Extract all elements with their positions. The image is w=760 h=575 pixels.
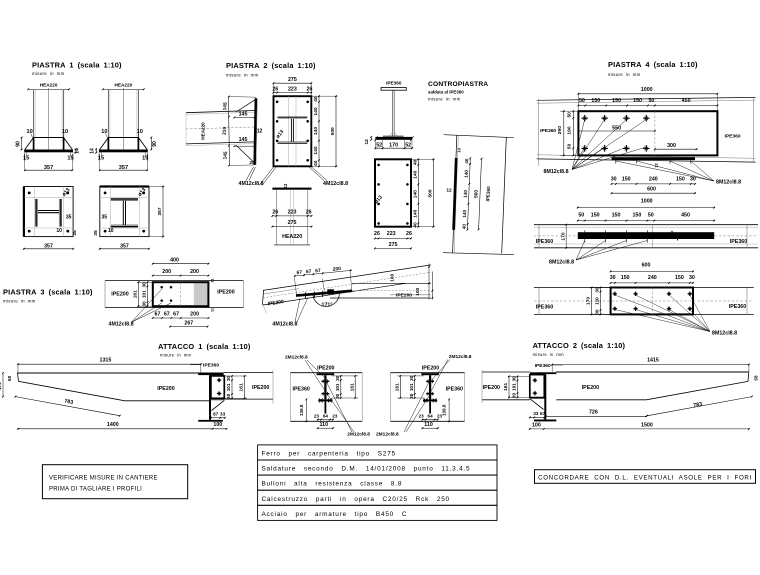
svg-text:100: 100 xyxy=(213,422,222,428)
svg-text:267: 267 xyxy=(184,321,193,327)
dim 170 left xyxy=(2,373,4,397)
svg-text:Acciaio per armature tipo B450: Acciaio per armature tipo B450 C xyxy=(262,511,408,518)
svg-text:Saldature secondo D.M. 14/01/2: Saldature secondo D.M. 14/01/2008 punto … xyxy=(262,466,471,473)
svg-text:161: 161 xyxy=(133,290,139,298)
web with bolts xyxy=(324,375,326,399)
svg-text:357: 357 xyxy=(44,165,53,171)
svg-text:Calcestruzzo parti in opera C2: Calcestruzzo parti in opera C20/25 Rck 2… xyxy=(262,496,450,503)
svg-text:4M12cl8.8: 4M12cl8.8 xyxy=(323,181,348,187)
svg-text:110: 110 xyxy=(320,422,329,428)
bolts 8M12 xyxy=(581,117,588,119)
svg-text:12: 12 xyxy=(283,183,288,188)
svg-text:110: 110 xyxy=(424,422,433,428)
svg-text:4M12cl8.8: 4M12cl8.8 xyxy=(109,322,134,328)
svg-text:140: 140 xyxy=(412,170,418,178)
dim 290 xyxy=(563,111,565,155)
svg-text:2M12cl8.8: 2M12cl8.8 xyxy=(285,355,308,361)
svg-text:50: 50 xyxy=(578,212,584,218)
svg-text:23: 23 xyxy=(332,413,338,418)
svg-text:VERIFICARE MISURE IN CANTIERE: VERIFICARE MISURE IN CANTIERE xyxy=(49,475,158,481)
beam IPE360 plan view 1 xyxy=(537,97,756,100)
leader lines to bottom view xyxy=(259,167,274,186)
bolt holes xyxy=(104,192,107,195)
svg-text:500: 500 xyxy=(427,189,433,197)
svg-text:misure in mm: misure in mm xyxy=(32,71,65,76)
svg-text:IPE200: IPE200 xyxy=(422,365,439,371)
svg-text:171°: 171° xyxy=(322,302,333,308)
svg-text:23: 23 xyxy=(419,413,425,418)
bolted detail IPE200-IPE360 xyxy=(290,372,362,374)
svg-text:140: 140 xyxy=(313,107,319,115)
svg-text:IPE200: IPE200 xyxy=(396,293,412,299)
svg-text:150: 150 xyxy=(622,177,631,183)
bolted detail IPE200-IPE360 xyxy=(390,372,464,374)
bottom flange bar xyxy=(318,399,332,401)
svg-text:30: 30 xyxy=(226,393,231,399)
svg-text:150: 150 xyxy=(621,275,630,281)
svg-text:67: 67 xyxy=(155,312,161,318)
svg-text:170: 170 xyxy=(0,382,2,390)
svg-text:8M12cl8.8: 8M12cl8.8 xyxy=(544,169,569,175)
svg-text:170: 170 xyxy=(586,297,592,305)
svg-text:IPE200: IPE200 xyxy=(252,385,269,391)
svg-text:35: 35 xyxy=(102,215,108,221)
plate edge-on thick bar xyxy=(578,232,714,239)
svg-text:150: 150 xyxy=(612,212,621,218)
svg-text:145: 145 xyxy=(239,112,248,118)
svg-text:1000: 1000 xyxy=(641,199,653,205)
svg-text:8M12cl8.8: 8M12cl8.8 xyxy=(549,260,574,266)
svg-text:67: 67 xyxy=(315,268,321,275)
svg-text:HEA220: HEA220 xyxy=(201,122,206,140)
svg-text:150: 150 xyxy=(676,177,685,183)
svg-text:14: 14 xyxy=(89,148,95,154)
svg-text:200: 200 xyxy=(190,312,199,318)
svg-text:1400: 1400 xyxy=(107,422,119,428)
svg-text:30: 30 xyxy=(409,393,414,399)
dim 30 101 30 left xyxy=(147,282,149,306)
svg-text:PIASTRA 1 (scala 1:10): PIASTRA 1 (scala 1:10) xyxy=(32,61,122,70)
svg-text:140: 140 xyxy=(412,209,418,217)
svg-text:30: 30 xyxy=(611,177,617,183)
svg-text:161: 161 xyxy=(503,383,509,391)
svg-text:357: 357 xyxy=(119,165,128,171)
bolt holes 8x xyxy=(276,101,279,104)
svg-text:33: 33 xyxy=(533,411,539,416)
svg-text:30: 30 xyxy=(226,376,231,382)
svg-text:140: 140 xyxy=(464,170,469,178)
svg-text:2M12cl8.8: 2M12cl8.8 xyxy=(449,354,472,360)
svg-text:11: 11 xyxy=(211,308,215,312)
svg-text:101: 101 xyxy=(142,290,147,298)
svg-text:50: 50 xyxy=(648,212,654,218)
svg-text:140: 140 xyxy=(463,190,468,198)
horizontal beam xyxy=(352,282,431,284)
svg-text:misure in mm: misure in mm xyxy=(226,73,259,78)
svg-text:145: 145 xyxy=(222,102,229,111)
svg-text:50: 50 xyxy=(567,112,573,118)
svg-text:IPE360: IPE360 xyxy=(446,386,463,392)
svg-text:26: 26 xyxy=(406,231,412,237)
svg-text:140: 140 xyxy=(462,209,467,217)
svg-text:26: 26 xyxy=(307,87,313,93)
svg-text:30: 30 xyxy=(142,301,147,307)
svg-text:IPE200: IPE200 xyxy=(582,385,599,391)
svg-text:170: 170 xyxy=(389,142,398,148)
svg-text:275: 275 xyxy=(288,77,297,83)
svg-text:30: 30 xyxy=(512,376,517,382)
svg-text:101: 101 xyxy=(226,383,231,391)
svg-text:450: 450 xyxy=(681,212,690,218)
svg-text:30: 30 xyxy=(595,287,600,293)
svg-text:90: 90 xyxy=(16,141,22,147)
dim 300 inner xyxy=(655,148,697,150)
svg-text:33: 33 xyxy=(220,412,226,417)
svg-text:52: 52 xyxy=(376,142,382,148)
contropiastra angled side view xyxy=(444,135,514,138)
dim 783 sloped xyxy=(15,397,119,416)
svg-text:40: 40 xyxy=(412,159,418,165)
svg-text:IPE200: IPE200 xyxy=(217,290,234,296)
edge plate 600 below xyxy=(612,157,695,160)
angled joint view 171deg xyxy=(263,265,431,291)
dim chain 40 140x3 40 right xyxy=(417,159,419,226)
svg-text:12: 12 xyxy=(654,163,659,168)
dim 357 bottom xyxy=(100,248,149,250)
bolt holes xyxy=(28,192,31,195)
svg-text:1500: 1500 xyxy=(641,422,653,428)
svg-text:40: 40 xyxy=(464,158,469,164)
svg-text:HEA220: HEA220 xyxy=(40,83,58,88)
top flange bar xyxy=(421,373,439,375)
svg-text:600: 600 xyxy=(642,263,651,269)
dim 90 xyxy=(150,138,152,150)
dim 52 170 52 xyxy=(374,140,376,150)
svg-text:52: 52 xyxy=(405,142,411,148)
svg-text:200: 200 xyxy=(333,266,342,273)
svg-text:26: 26 xyxy=(272,210,278,216)
svg-text:ATTACCO 2 (scala 1:10): ATTACCO 2 (scala 1:10) xyxy=(533,341,626,350)
dim 500 right xyxy=(335,96,337,166)
svg-text:67: 67 xyxy=(306,269,312,276)
svg-text:290: 290 xyxy=(557,126,563,134)
dim 357 right vertical xyxy=(162,187,164,237)
dim 500 xyxy=(479,159,482,230)
dim 139.8 xyxy=(448,399,450,421)
svg-text:IPE200: IPE200 xyxy=(483,385,500,391)
dim 357 xyxy=(24,154,26,169)
angle arc 171 xyxy=(313,292,340,307)
svg-text:PIASTRA 4 (scala 1:10): PIASTRA 4 (scala 1:10) xyxy=(608,60,698,69)
svg-text:IPE360: IPE360 xyxy=(293,386,310,392)
svg-text:139.8: 139.8 xyxy=(442,404,447,416)
svg-text:10: 10 xyxy=(137,129,143,135)
svg-text:275: 275 xyxy=(288,220,297,226)
svg-text:145: 145 xyxy=(239,137,248,143)
svg-text:100: 100 xyxy=(390,273,396,281)
svg-text:IPE360: IPE360 xyxy=(725,134,741,140)
svg-text:14: 14 xyxy=(75,148,81,154)
svg-text:140: 140 xyxy=(412,190,418,198)
svg-text:140: 140 xyxy=(313,146,319,154)
svg-text:140: 140 xyxy=(313,127,319,135)
plate plan PIASTRA 2 xyxy=(274,96,312,166)
bolts 8M12 xyxy=(613,293,617,295)
svg-text:Ferro per carpenteria tipo S27: Ferro per carpenteria tipo S275 xyxy=(262,451,396,458)
svg-text:101: 101 xyxy=(409,383,414,391)
dim 139.8 xyxy=(305,399,307,421)
svg-text:misure in mm: misure in mm xyxy=(3,299,36,304)
svg-text:223: 223 xyxy=(387,231,396,237)
svg-text:4M12cl8.8: 4M12cl8.8 xyxy=(272,322,297,328)
svg-text:150: 150 xyxy=(591,98,600,104)
svg-text:210: 210 xyxy=(222,126,229,135)
stiffener gussets xyxy=(100,138,109,150)
plate 1000x290 xyxy=(578,111,717,155)
svg-text:1415: 1415 xyxy=(647,357,659,363)
beam stub left xyxy=(482,371,530,373)
svg-text:30: 30 xyxy=(409,375,414,381)
base plate xyxy=(99,150,148,153)
plate 600x170 plan xyxy=(611,288,693,315)
svg-text:HEA220: HEA220 xyxy=(115,83,133,88)
dim 170 xyxy=(591,288,593,315)
top flange bar xyxy=(317,373,335,375)
svg-text:ATTACCO 1 (scala 1:10): ATTACCO 1 (scala 1:10) xyxy=(158,342,251,351)
svg-text:67: 67 xyxy=(540,411,546,416)
svg-text:101: 101 xyxy=(512,383,517,391)
svg-text:190: 190 xyxy=(567,126,573,134)
dim 14 xyxy=(95,149,97,152)
dim 161 xyxy=(138,282,140,306)
svg-text:139.8: 139.8 xyxy=(299,404,304,416)
svg-text:10: 10 xyxy=(26,129,32,135)
svg-text:30: 30 xyxy=(689,275,695,281)
svg-text:12: 12 xyxy=(257,128,263,134)
svg-text:IPE360: IPE360 xyxy=(540,128,556,134)
svg-text:300: 300 xyxy=(667,143,676,149)
svg-text:50: 50 xyxy=(579,98,585,104)
svg-text:67: 67 xyxy=(173,312,179,318)
svg-text:240: 240 xyxy=(649,177,658,183)
svg-text:150: 150 xyxy=(612,98,621,104)
svg-text:26: 26 xyxy=(374,231,380,237)
bottom view PIASTRA 2 xyxy=(272,188,311,190)
svg-text:500: 500 xyxy=(473,189,479,198)
HEA220 section in plan xyxy=(278,116,308,118)
dim 357 bottom xyxy=(24,248,73,250)
tapered beam IPE200 xyxy=(17,372,224,374)
dims 30 101 30 and 161 xyxy=(397,375,424,377)
svg-text:10: 10 xyxy=(62,129,68,135)
dims 100 100 right xyxy=(428,264,430,300)
bolts 4M12 xyxy=(160,286,163,289)
svg-text:2M12cl8.8: 2M12cl8.8 xyxy=(347,432,370,438)
gusset diagonals xyxy=(236,100,256,113)
svg-text:67: 67 xyxy=(164,312,170,318)
svg-text:110: 110 xyxy=(595,297,600,305)
svg-text:23: 23 xyxy=(314,413,320,418)
dim 550 inner xyxy=(578,130,655,132)
svg-text:90: 90 xyxy=(152,141,158,147)
svg-text:500: 500 xyxy=(330,127,336,135)
svg-text:CONTROPIASTRA: CONTROPIASTRA xyxy=(428,81,488,88)
svg-text:67: 67 xyxy=(296,270,302,277)
svg-text:IPE360: IPE360 xyxy=(536,305,553,311)
svg-text:35: 35 xyxy=(66,215,72,221)
note box right xyxy=(535,470,756,484)
svg-text:11: 11 xyxy=(211,278,215,282)
plate edge thick xyxy=(454,158,457,230)
svg-text:12: 12 xyxy=(446,188,452,194)
svg-text:64: 64 xyxy=(323,413,329,418)
svg-text:40: 40 xyxy=(313,160,319,166)
svg-text:30: 30 xyxy=(512,393,517,399)
svg-text:misure in mm: misure in mm xyxy=(608,72,641,77)
dim 783 sloped xyxy=(647,397,752,416)
svg-text:223: 223 xyxy=(288,210,297,216)
svg-text:50: 50 xyxy=(648,98,654,104)
svg-text:Bulloni alta resistenza classe: Bulloni alta resistenza classe 8.8 xyxy=(262,481,403,488)
HEA220 section xyxy=(111,198,138,200)
contropiastra plate edge xyxy=(375,137,412,140)
svg-text:IPE360: IPE360 xyxy=(485,186,491,202)
svg-text:IPE200: IPE200 xyxy=(111,292,128,298)
svg-text:CONCORDARE CON D.L. EVENTUALI: CONCORDARE CON D.L. EVENTUALI ASOLE PER … xyxy=(538,474,752,481)
svg-text:IPE360: IPE360 xyxy=(729,304,746,310)
svg-text:IPE360: IPE360 xyxy=(203,363,219,369)
svg-text:30: 30 xyxy=(595,309,600,315)
dim chain 40 140x3 40 xyxy=(467,158,470,229)
dims left 30 101 30 and 161 xyxy=(508,375,530,377)
svg-text:misure in mm: misure in mm xyxy=(428,97,461,102)
svg-text:PIASTRA 2 (scala 1:10): PIASTRA 2 (scala 1:10) xyxy=(226,61,316,70)
svg-text:58: 58 xyxy=(7,376,12,382)
dim chain right 40 140x3 40 xyxy=(318,96,320,166)
svg-text:26: 26 xyxy=(306,210,312,216)
dim chain 30 110 30 left xyxy=(600,288,602,315)
dim 90 xyxy=(21,138,23,150)
dims 67 67 67 200 inclined xyxy=(295,270,352,276)
svg-text:357: 357 xyxy=(120,243,129,249)
svg-text:IPE360: IPE360 xyxy=(536,239,553,245)
svg-text:150: 150 xyxy=(675,275,684,281)
plate plan view PIASTRA 1 xyxy=(24,187,73,237)
svg-text:357: 357 xyxy=(44,243,53,249)
svg-text:275: 275 xyxy=(389,242,398,248)
svg-text:223: 223 xyxy=(288,87,297,93)
svg-text:161: 161 xyxy=(349,383,355,391)
HEA220 column angled elevation xyxy=(186,111,255,113)
svg-text:30: 30 xyxy=(690,177,696,183)
plate plan view PIASTRA 1 xyxy=(100,187,149,237)
notes table xyxy=(258,445,497,460)
svg-text:8M12cl8.8: 8M12cl8.8 xyxy=(712,331,737,337)
svg-text:IPE200: IPE200 xyxy=(317,365,334,371)
svg-text:58: 58 xyxy=(754,375,759,381)
svg-text:IPE360: IPE360 xyxy=(535,363,551,369)
svg-text:30: 30 xyxy=(335,393,340,399)
svg-text:200: 200 xyxy=(190,269,199,275)
plate along incline xyxy=(296,291,352,296)
dim chain 145 210 145 xyxy=(228,97,229,166)
svg-text:150: 150 xyxy=(591,212,600,218)
svg-text:misure in mm: misure in mm xyxy=(533,352,565,357)
dim 357 xyxy=(99,154,101,169)
dims right 30 101 30 and 161 xyxy=(224,375,247,377)
svg-text:600: 600 xyxy=(647,187,656,193)
svg-text:IPE200: IPE200 xyxy=(157,386,174,392)
svg-text:161: 161 xyxy=(394,383,400,391)
dim chain left 50 190 50 xyxy=(572,111,574,155)
note box left xyxy=(42,465,187,499)
svg-text:PIASTRA 3 (scala 1:10): PIASTRA 3 (scala 1:10) xyxy=(3,288,93,297)
dim 500 xyxy=(432,159,434,226)
svg-text:67: 67 xyxy=(213,412,219,417)
svg-text:1000: 1000 xyxy=(641,87,653,93)
column IPE360 with plate xyxy=(198,373,223,375)
svg-text:200: 200 xyxy=(162,269,171,275)
bottom flange bar xyxy=(423,399,437,401)
stiffener gussets xyxy=(25,138,34,150)
beam stub right xyxy=(224,372,273,374)
svg-text:30: 30 xyxy=(335,375,340,381)
svg-text:23: 23 xyxy=(437,413,443,418)
svg-text:26: 26 xyxy=(272,87,278,93)
svg-text:35: 35 xyxy=(93,230,99,236)
svg-text:1315: 1315 xyxy=(100,358,112,364)
svg-text:IPE360: IPE360 xyxy=(730,239,747,245)
svg-text:10: 10 xyxy=(56,228,62,234)
svg-text:100: 100 xyxy=(415,287,421,295)
svg-text:2M12cl8.8: 2M12cl8.8 xyxy=(376,432,399,438)
svg-text:8M12cl8.8: 8M12cl8.8 xyxy=(716,180,741,186)
svg-text:150: 150 xyxy=(633,98,642,104)
svg-text:101: 101 xyxy=(335,383,340,391)
dims 30 101 30 and 161 xyxy=(331,375,358,377)
svg-text:4M12cl8.8: 4M12cl8.8 xyxy=(239,181,264,187)
svg-text:40: 40 xyxy=(461,224,466,230)
svg-text:40: 40 xyxy=(313,96,319,102)
svg-text:50: 50 xyxy=(567,144,573,150)
svg-text:100: 100 xyxy=(532,422,541,428)
svg-text:450: 450 xyxy=(682,98,691,104)
dim 14 xyxy=(75,149,77,152)
contropiastra plan with bolts xyxy=(375,159,411,226)
HEA220 section xyxy=(35,199,37,227)
svg-text:35: 35 xyxy=(72,230,78,236)
column IPE360 with plate xyxy=(530,372,556,374)
base plate xyxy=(24,150,73,153)
svg-text:145: 145 xyxy=(222,151,229,160)
svg-text:10: 10 xyxy=(101,129,107,135)
svg-text:saldata al IPE360: saldata al IPE360 xyxy=(428,90,464,95)
svg-text:10: 10 xyxy=(108,228,114,234)
svg-text:170: 170 xyxy=(560,232,566,240)
svg-text:400: 400 xyxy=(170,257,179,263)
svg-text:PRIMA DI TAGLIARE I PROFILI: PRIMA DI TAGLIARE I PROFILI xyxy=(49,487,142,493)
svg-text:12: 12 xyxy=(364,139,370,145)
web with bolts xyxy=(429,375,431,399)
svg-text:misure in mm: misure in mm xyxy=(160,353,192,358)
svg-text:64: 64 xyxy=(428,413,434,418)
plate edge-on thick xyxy=(255,98,256,165)
svg-text:30: 30 xyxy=(142,282,147,288)
svg-text:357: 357 xyxy=(157,207,163,215)
plate 400 plan xyxy=(194,283,208,305)
svg-text:20: 20 xyxy=(249,160,255,165)
svg-text:IPE360: IPE360 xyxy=(386,81,402,86)
